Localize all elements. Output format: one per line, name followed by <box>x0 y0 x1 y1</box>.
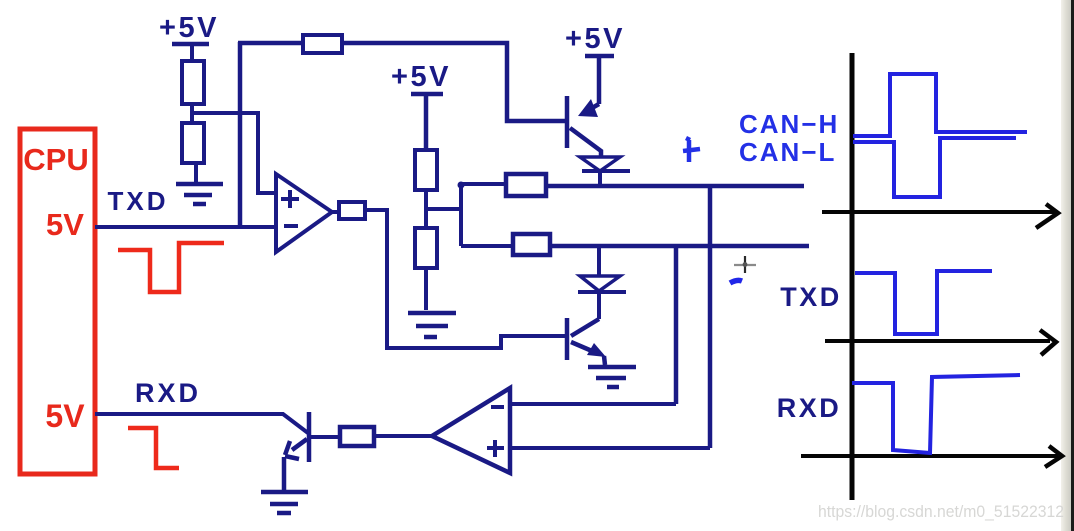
svg-text:5V: 5V <box>46 207 84 242</box>
ground (left divider) <box>176 184 223 204</box>
svg-text:+5V: +5V <box>565 23 625 55</box>
wire <box>190 104 194 123</box>
window edge <box>1071 0 1074 531</box>
wire CAN-H tap down to comparator + input <box>708 184 713 448</box>
wire D2 to Q2 collector <box>597 293 601 319</box>
CAN waveform axis <box>822 210 1056 214</box>
transistor Q3 (RXD) <box>284 412 309 490</box>
comparator U2 <box>432 388 510 473</box>
+5V rail bar <box>172 42 209 47</box>
RXD axis arrowhead <box>1045 446 1062 467</box>
svg-text:TXD: TXD <box>780 282 842 312</box>
diode D1 <box>580 157 620 171</box>
svg-text:CAN−H: CAN−H <box>739 109 839 139</box>
crosshair cursor <box>734 256 756 273</box>
ground (Q2 emitter) <box>588 367 636 387</box>
wire R9 to Q3 base <box>311 435 340 439</box>
U1 - input mark <box>284 224 298 228</box>
scrollbar strip <box>1061 0 1071 531</box>
resistor R2 <box>182 123 204 163</box>
resistor R1 <box>182 61 204 104</box>
svg-text:+5V: +5V <box>159 12 219 44</box>
resistor R3 (feedback) <box>303 35 342 53</box>
time axis vertical <box>850 53 855 500</box>
svg-text:+5V: +5V <box>391 61 451 93</box>
blue tick mark <box>730 280 742 283</box>
resistor R9 (U2 output to Q3 base) <box>340 427 374 446</box>
svg-text:RXD: RXD <box>135 378 201 408</box>
resistor R5 <box>415 228 437 268</box>
U2 + input mark <box>487 440 504 457</box>
RXD waveform axis <box>801 454 1058 458</box>
resistor R7 (CAN-H series) <box>506 174 546 196</box>
wire CAN-L bus <box>550 244 809 249</box>
wire U2 + input to CAN-H <box>510 446 710 450</box>
D2 cathode bar <box>578 290 626 294</box>
wire feedback vertical from top rail to TXD node <box>238 42 243 227</box>
svg-text:RXD: RXD <box>777 393 842 423</box>
svg-text:CAN−L: CAN−L <box>739 137 836 167</box>
U2 - input mark <box>491 405 504 409</box>
wire CAN-H bus <box>546 184 804 189</box>
Q2 emitter arrowhead <box>587 343 606 357</box>
TXD waveform axis <box>825 339 1050 343</box>
U1 + input mark <box>281 190 299 208</box>
svg-text:TXD: TXD <box>108 186 169 216</box>
svg-text:5V: 5V <box>45 398 85 434</box>
+5V rail bar <box>585 54 614 59</box>
wire RXD from CPU to transistor Q3 collector <box>95 414 308 433</box>
Q1 emitter arrowhead <box>578 99 598 117</box>
wire <box>190 44 194 61</box>
CAN-H waveform <box>853 74 1027 136</box>
op-amp U1 <box>276 174 332 252</box>
wire CAN-L tap down to comparator - input <box>674 246 679 404</box>
ground (Q3 emitter) <box>261 492 308 513</box>
TXD axis arrowhead <box>1040 330 1056 355</box>
node dot <box>458 182 465 189</box>
wire top rail to Q1 base <box>342 43 566 121</box>
wire <box>597 56 602 104</box>
transistor Q1 (PNP) <box>567 96 601 157</box>
CAN-L waveform <box>853 138 1016 197</box>
resistor R8 (CAN-L series) <box>513 234 550 255</box>
wire <box>424 94 429 150</box>
red TXD pulse waveform <box>118 243 224 292</box>
ground (middle divider) <box>408 313 456 337</box>
wire <box>424 268 428 310</box>
wire U1 output <box>330 210 339 214</box>
CPU box <box>20 129 95 474</box>
diode D2 <box>580 276 620 291</box>
wire D1 to CAN-H bus <box>598 172 602 186</box>
wire divider tap to op-amp + input <box>192 113 276 193</box>
wire TXD from CPU to op-amp inverting input <box>95 225 276 229</box>
red RXD pulse waveform <box>128 428 179 468</box>
wire top rail left <box>238 41 303 46</box>
transistor Q2 (NPN) <box>567 318 605 365</box>
wire <box>424 190 428 228</box>
cursor glyph t <box>683 138 700 162</box>
RXD waveform <box>852 375 1020 453</box>
+5V rail bar <box>411 92 443 97</box>
wire U2 - input to CAN-L <box>510 402 676 406</box>
CAN axis arrowhead <box>1036 204 1058 228</box>
wire CAN-L bus to D2 <box>597 248 601 276</box>
svg-text:https://blog.csdn.net/m0_51522: https://blog.csdn.net/m0_51522312 <box>818 503 1064 521</box>
resistor R6 (U1 output) <box>339 202 365 219</box>
TXD waveform <box>855 271 992 334</box>
resistor R4 <box>415 150 437 190</box>
wire U1 output to Q2 base <box>365 210 567 348</box>
wire U2 output <box>374 434 432 438</box>
wire divider tap to bus resistors <box>426 184 513 246</box>
svg-text:CPU: CPU <box>23 142 88 177</box>
wire <box>194 163 198 182</box>
D1 cathode bar <box>582 169 630 173</box>
